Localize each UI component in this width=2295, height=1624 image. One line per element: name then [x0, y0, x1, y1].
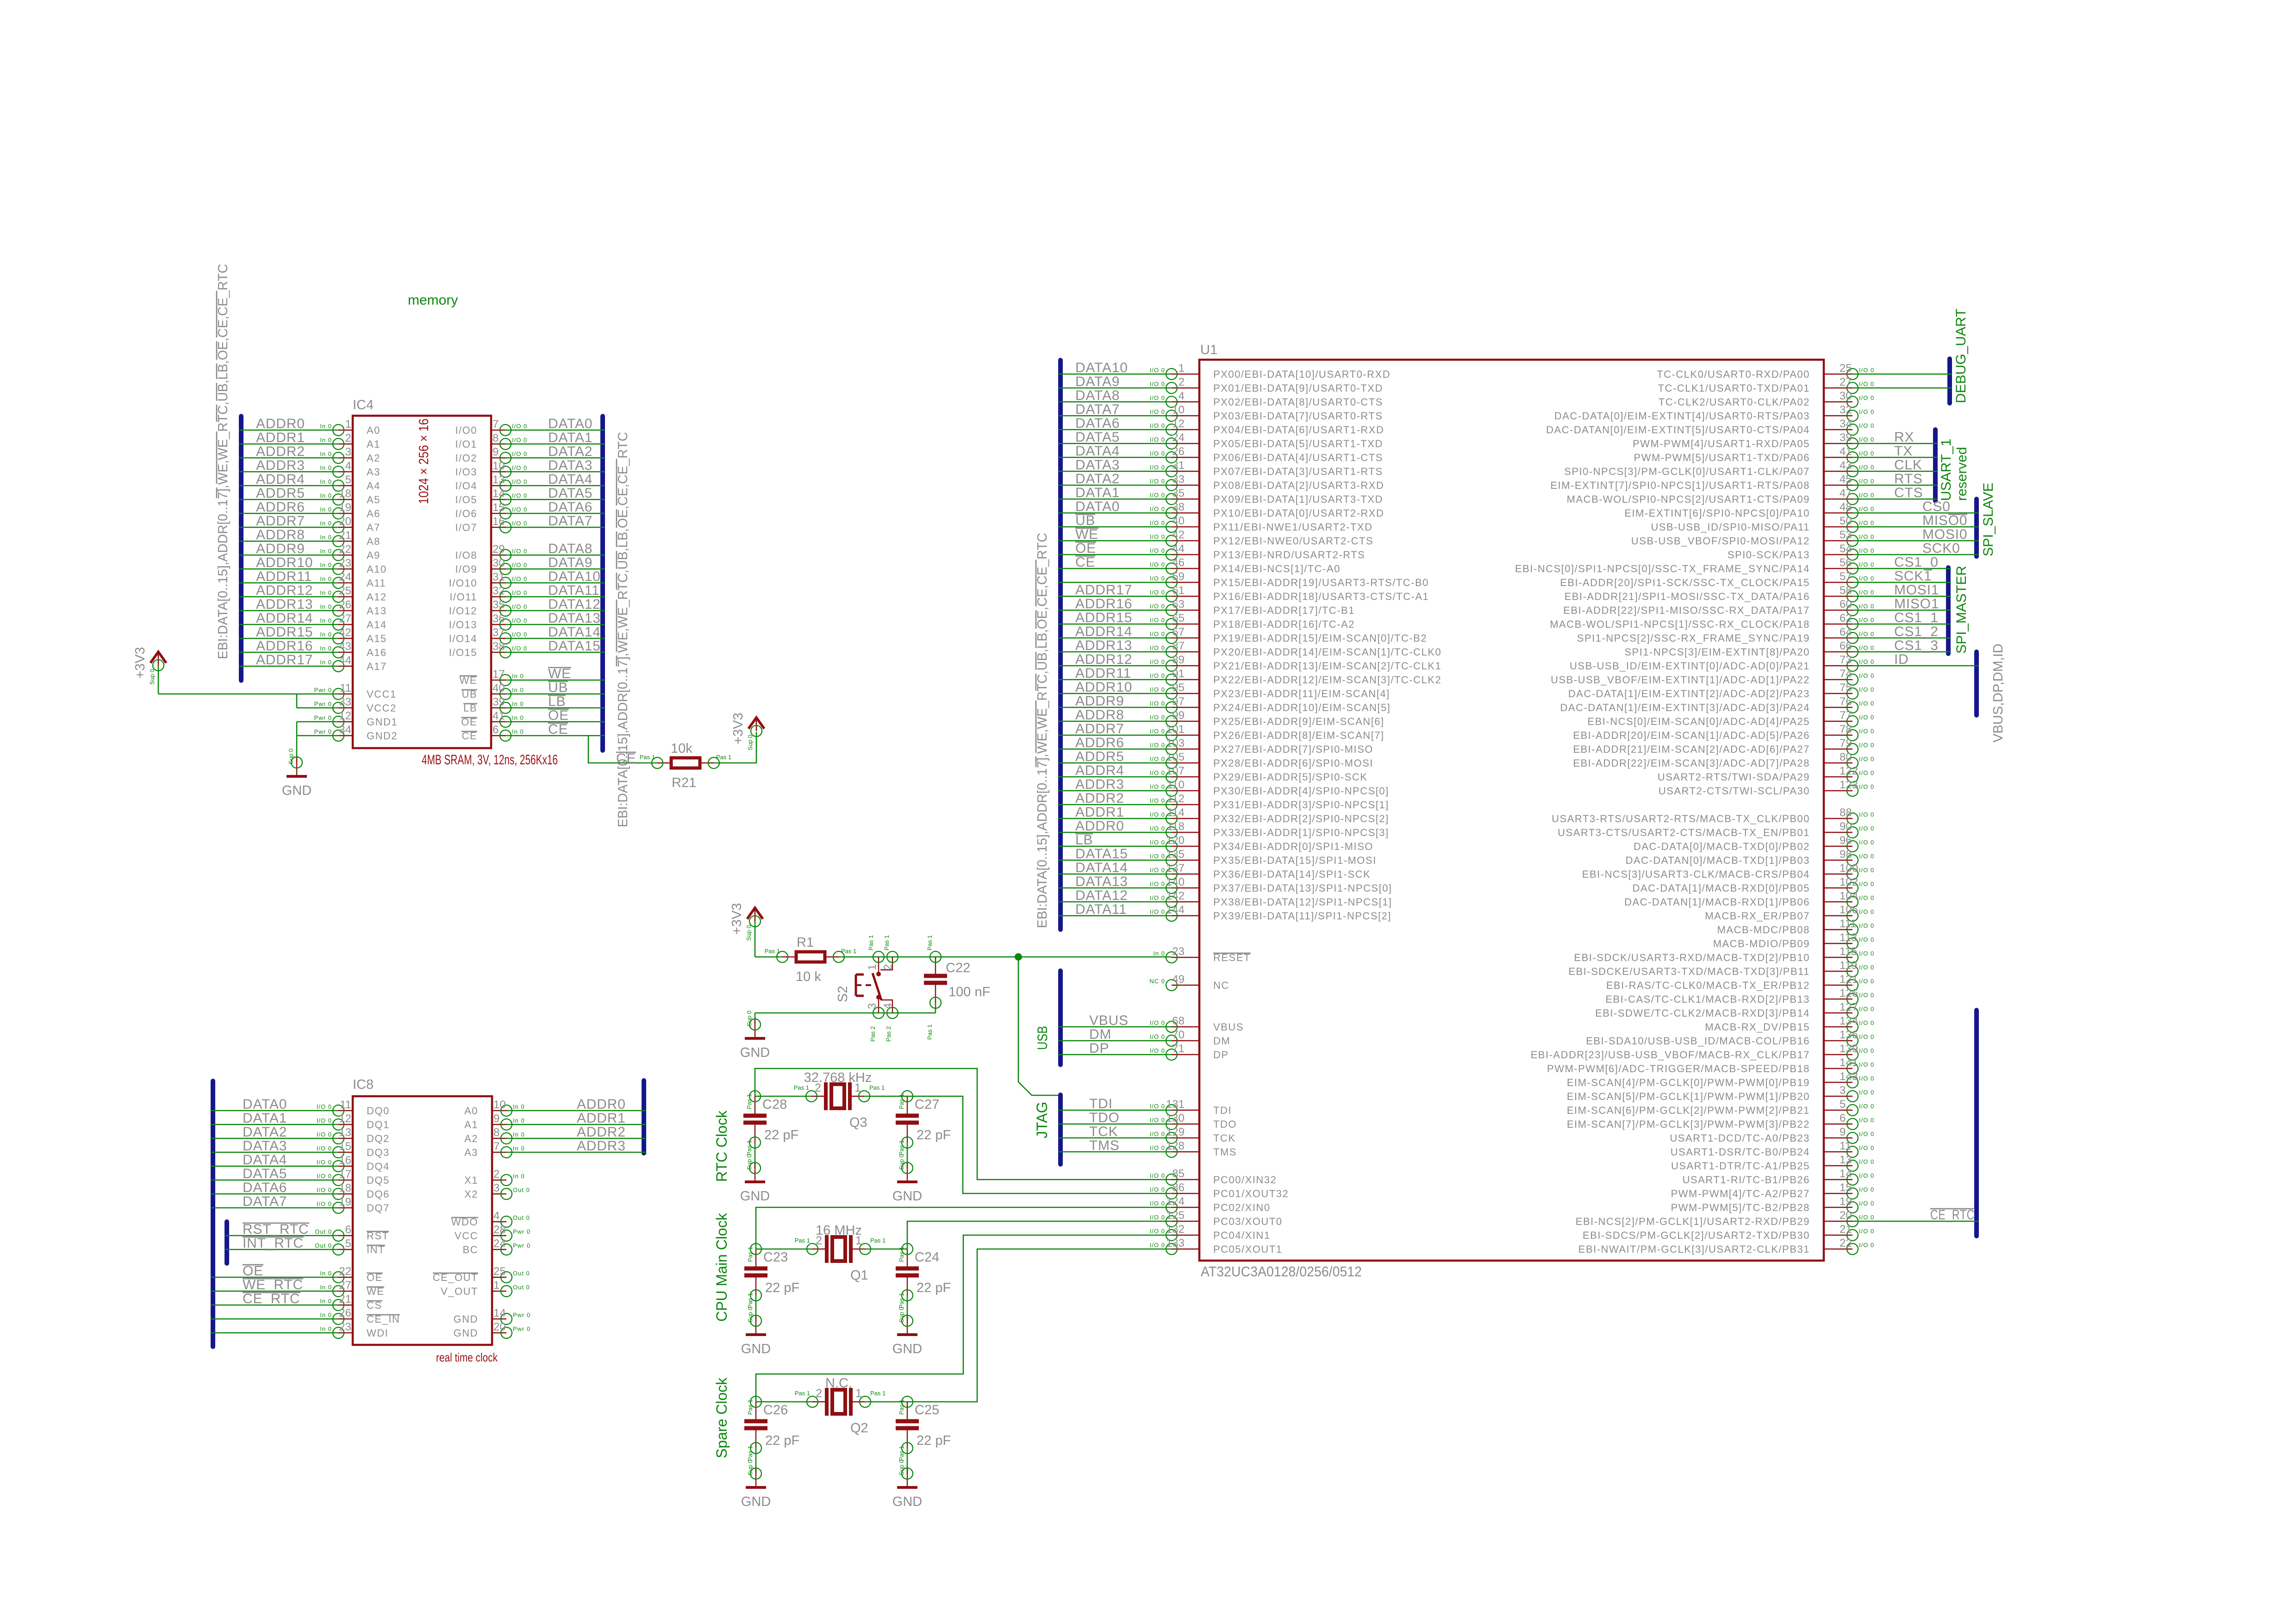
svg-text:DATA10: DATA10 — [548, 569, 601, 584]
wire to IC8 WDI — [211, 1332, 338, 1334]
svg-text:EBI-NCS[3]/USART3-CLK/MACB-CRS: EBI-NCS[3]/USART3-CLK/MACB-CRS/PB04 — [1582, 868, 1810, 880]
svg-text:4: 4 — [493, 1210, 499, 1222]
svg-text:PX04/EBI-DATA[6]/USART1-RXD: PX04/EBI-DATA[6]/USART1-RXD — [1213, 424, 1384, 436]
svg-text:Sup 0: Sup 0 — [746, 1154, 753, 1170]
svg-text:91: 91 — [1172, 668, 1185, 680]
svg-text:26: 26 — [339, 599, 351, 611]
IC8 pin 14 (GND) — [454, 1307, 531, 1325]
svg-text:10 k: 10 k — [796, 969, 821, 984]
svg-text:PX26/EBI-ADDR[8]/EIM-SCAN[7]: PX26/EBI-ADDR[8]/EIM-SCAN[7] — [1213, 730, 1384, 741]
svg-text:17: 17 — [493, 668, 505, 681]
svg-text:DATA2: DATA2 — [243, 1124, 287, 1140]
wire U1 pin 144 to EBI bus — [1059, 915, 1172, 917]
svg-text:Pas 1: Pas 1 — [746, 1094, 753, 1109]
svg-text:PX22/EBI-ADDR[12]/EIM-SCAN[3]/: PX22/EBI-ADDR[12]/EIM-SCAN[3]/TC-CLK2 — [1213, 674, 1441, 686]
U1 pin 43 — [1564, 459, 1874, 477]
U1 pin 33 — [1150, 473, 1384, 491]
svg-text:15: 15 — [339, 1140, 351, 1153]
svg-text:ADDR2: ADDR2 — [256, 444, 305, 459]
svg-text:In 0: In 0 — [320, 603, 332, 610]
svg-text:I/O 0: I/O 0 — [1150, 797, 1165, 804]
svg-text:Pas 1: Pas 1 — [883, 935, 890, 950]
svg-text:I/O 0: I/O 0 — [1859, 922, 1874, 929]
svg-text:PX31/EBI-ADDR[3]/SPI0-NPCS[1]: PX31/EBI-ADDR[3]/SPI0-NPCS[1] — [1213, 799, 1389, 811]
svg-text:A6: A6 — [367, 508, 380, 519]
svg-text:34: 34 — [1840, 418, 1852, 430]
wire U1 pin 4 to EBI bus — [1059, 401, 1172, 403]
U1 pin 120 — [1150, 834, 1373, 852]
wire Q2 right / XOUT1 — [865, 1249, 1172, 1402]
svg-text:32.768 kHz: 32.768 kHz — [804, 1070, 872, 1085]
svg-text:I/O 0: I/O 0 — [1150, 381, 1165, 387]
svg-text:USART3-CTS/USART2-CTS/MACB-TX_: USART3-CTS/USART2-CTS/MACB-TX_EN/PB01 — [1558, 827, 1810, 838]
svg-text:BC: BC — [462, 1244, 478, 1255]
svg-text:PX11/EBI-NWE1/USART2-TXD: PX11/EBI-NWE1/USART2-TXD — [1213, 521, 1372, 533]
svg-text:16: 16 — [339, 1154, 351, 1167]
svg-text:87: 87 — [1172, 640, 1185, 652]
svg-text:I/O 0: I/O 0 — [317, 1200, 332, 1207]
wire GND1 — [297, 721, 338, 723]
wire U1 pin 53 net — [1852, 540, 1978, 542]
svg-text:In 0: In 0 — [512, 714, 524, 721]
svg-text:I/O 0: I/O 0 — [1859, 1075, 1874, 1082]
svg-text:AT32UC3A0128/0256/0512: AT32UC3A0128/0256/0512 — [1201, 1263, 1362, 1280]
svg-text:A15: A15 — [367, 633, 387, 644]
svg-text:TC-CLK1/USART0-TXD/PA01: TC-CLK1/USART0-TXD/PA01 — [1658, 382, 1810, 394]
svg-text:I/O 0: I/O 0 — [1150, 867, 1165, 874]
svg-text:I/O 0: I/O 0 — [317, 1131, 332, 1138]
svg-text:37: 37 — [493, 626, 505, 639]
svg-text:I/O7: I/O7 — [455, 522, 477, 533]
svg-text:I/O 0: I/O 0 — [1859, 617, 1874, 624]
svg-text:Pas 1: Pas 1 — [898, 1293, 905, 1308]
svg-text:EBI-SDCKE/USART3-TXD/MACB-TXD[: EBI-SDCKE/USART3-TXD/MACB-TXD[3]/PB11 — [1568, 966, 1810, 977]
svg-text:PX19/EBI-ADDR[15]/EIM-SCAN[0]/: PX19/EBI-ADDR[15]/EIM-SCAN[0]/TC-B2 — [1213, 632, 1427, 644]
wire net ADDR4 to IC4 — [239, 485, 338, 487]
U1 pin 76 — [1560, 695, 1875, 713]
svg-text:ADDR2: ADDR2 — [577, 1124, 626, 1140]
svg-text:Pas 1: Pas 1 — [716, 754, 731, 761]
U1 pin 40 — [1150, 515, 1373, 533]
IC4 pin 22 (A9) — [320, 543, 380, 561]
svg-text:TDO: TDO — [1089, 1110, 1120, 1125]
svg-text:EIM-EXTINT[6]/SPI0-NPCS[0]/PA1: EIM-EXTINT[6]/SPI0-NPCS[0]/PA10 — [1624, 507, 1810, 519]
svg-text:I/O 0: I/O 0 — [1859, 575, 1874, 582]
IC4 pin 30 (I/O9) — [455, 557, 527, 575]
wire GND2 + to ground — [296, 722, 298, 762]
svg-text:60: 60 — [1840, 598, 1852, 611]
svg-text:I/O 0: I/O 0 — [1150, 881, 1165, 887]
svg-text:C24: C24 — [915, 1250, 939, 1265]
svg-text:Spare Clock: Spare Clock — [713, 1377, 730, 1458]
U1 pin 104 — [1624, 890, 1874, 908]
svg-text:CLK: CLK — [1894, 457, 1922, 473]
svg-text:I/O0: I/O0 — [455, 425, 477, 436]
svg-text:I/O 0: I/O 0 — [1859, 1242, 1874, 1249]
svg-text:1: 1 — [493, 1279, 499, 1292]
wire net DATA10 from IC4 — [505, 582, 605, 584]
svg-text:2: 2 — [493, 1168, 499, 1181]
svg-text:I/O 0: I/O 0 — [1859, 936, 1874, 943]
svg-text:48: 48 — [1840, 501, 1852, 513]
U1 pin 63 — [1150, 598, 1355, 616]
svg-text:ADDR3: ADDR3 — [577, 1138, 626, 1154]
svg-text:I/O 0: I/O 0 — [1859, 589, 1874, 596]
svg-text:ADDR3: ADDR3 — [256, 458, 305, 473]
U1 pin 124 (PC02/XIN0) — [1150, 1195, 1271, 1213]
svg-text:1: 1 — [855, 1387, 862, 1400]
capacitor C28 22 pF — [743, 1091, 798, 1168]
svg-text:105: 105 — [1166, 751, 1185, 763]
wire U1 pin 26 to EBI bus — [1059, 457, 1172, 458]
svg-text:2: 2 — [816, 1387, 822, 1400]
svg-text:135: 135 — [1166, 848, 1185, 861]
svg-text:23: 23 — [339, 1321, 351, 1333]
svg-text:MACB-WOL/SPI1-NPCS[1]/SSC-RX_C: MACB-WOL/SPI1-NPCS[1]/SSC-RX_CLOCK/PA18 — [1550, 618, 1810, 630]
IC8 pin 23 (WDI) — [320, 1321, 388, 1339]
wire U1 pin 103 to EBI bus — [1059, 749, 1172, 750]
svg-text:5: 5 — [345, 474, 351, 486]
U1 pin 56 — [1515, 556, 1874, 575]
svg-text:ADDR5: ADDR5 — [256, 486, 305, 501]
wire U1 pin 87 to EBI bus — [1059, 651, 1172, 653]
U1 pin 137 — [1150, 862, 1371, 880]
svg-text:13: 13 — [339, 1126, 351, 1139]
U1 pin 102 — [1633, 876, 1875, 894]
svg-text:UB: UB — [548, 680, 568, 695]
bus EBI right of IC4 — [600, 416, 605, 750]
svg-text:114: 114 — [1167, 806, 1185, 819]
svg-text:12: 12 — [339, 1112, 351, 1125]
svg-text:I/O 0: I/O 0 — [512, 506, 527, 513]
svg-text:Pas 1: Pas 1 — [746, 1140, 753, 1156]
svg-text:I/O 0: I/O 0 — [1859, 950, 1874, 957]
svg-text:EBI-ADDR[22]/EIM-SCAN[3]/ADC-A: EBI-ADDR[22]/EIM-SCAN[3]/ADC-AD[7]/PA28 — [1573, 757, 1810, 769]
U1 pin 62 — [1550, 612, 1874, 630]
U1 pin 61 — [1150, 584, 1429, 602]
svg-text:In 0: In 0 — [513, 1173, 525, 1180]
svg-text:77: 77 — [1840, 709, 1852, 722]
svg-text:A11: A11 — [367, 577, 386, 589]
wire net DATA7 to IC8 — [211, 1207, 338, 1209]
svg-text:I/O 0: I/O 0 — [1859, 714, 1874, 721]
U1 pin 23 (RESET) — [1153, 945, 1251, 963]
svg-text:I/O 0: I/O 0 — [1150, 686, 1165, 693]
svg-text:42: 42 — [1172, 529, 1185, 541]
U1 pin 112 — [1150, 793, 1389, 811]
svg-text:43: 43 — [1840, 459, 1852, 472]
svg-text:101: 101 — [1166, 723, 1185, 736]
crystal Q2 N.C. — [795, 1376, 886, 1436]
svg-text:EBI-NCS[0]/SPI1-NPCS[0]/SSC-TX: EBI-NCS[0]/SPI1-NPCS[0]/SSC-TX_FRAME_SYN… — [1515, 563, 1810, 575]
svg-text:DATA13: DATA13 — [548, 611, 601, 626]
wire net ADDR15 to IC4 — [239, 638, 338, 639]
svg-text:I/O 0: I/O 0 — [1150, 1214, 1165, 1221]
svg-text:PX25/EBI-ADDR[9]/EIM-SCAN[6]: PX25/EBI-ADDR[9]/EIM-SCAN[6] — [1213, 716, 1384, 727]
svg-text:A14: A14 — [367, 619, 387, 631]
svg-text:23: 23 — [339, 557, 351, 569]
svg-text:TX: TX — [1894, 443, 1913, 459]
svg-text:35: 35 — [1172, 487, 1185, 500]
U1 pin 123 — [1659, 779, 1874, 797]
svg-text:22: 22 — [339, 543, 351, 556]
wire VCC2 branch — [296, 694, 298, 708]
svg-text:I/O15: I/O15 — [449, 647, 477, 658]
IC8 pin 24 (BC) — [462, 1237, 530, 1255]
svg-text:A9: A9 — [367, 550, 380, 561]
wire net DATA12 from IC4 — [505, 610, 605, 612]
svg-text:I/O 0: I/O 0 — [1859, 492, 1874, 499]
svg-text:Pwr 0: Pwr 0 — [314, 728, 332, 735]
wire net DATA6 from IC4 — [505, 513, 605, 514]
wire net ADDR1 from IC8 — [506, 1124, 646, 1125]
svg-text:PX10/EBI-DATA[0]/USART2-RXD: PX10/EBI-DATA[0]/USART2-RXD — [1213, 507, 1384, 519]
svg-text:I/O 0: I/O 0 — [1150, 1200, 1165, 1207]
wire RESET to JTAG bus — [1018, 957, 1059, 1095]
svg-text:39: 39 — [1840, 431, 1852, 444]
capacitor C26 22 pF — [744, 1396, 799, 1474]
svg-text:DATA7: DATA7 — [1075, 402, 1120, 417]
svg-text:134: 134 — [1840, 1015, 1858, 1027]
svg-text:VCC: VCC — [455, 1230, 478, 1242]
svg-text:DAC-DATAN[0]/MACB-TXD[1]/PB03: DAC-DATAN[0]/MACB-TXD[1]/PB03 — [1626, 855, 1810, 866]
svg-text:DATA15: DATA15 — [1075, 846, 1128, 862]
svg-text:40: 40 — [493, 682, 505, 694]
IC8 pin 16 (DQ4) — [317, 1154, 390, 1172]
svg-text:DQ5: DQ5 — [367, 1174, 390, 1186]
U1 pin 58 — [1565, 584, 1875, 602]
svg-text:115: 115 — [1840, 945, 1857, 958]
IC4 pin 24 (A11) — [320, 571, 386, 589]
svg-text:In 0: In 0 — [512, 673, 524, 680]
svg-text:25: 25 — [1840, 362, 1852, 375]
capacitor C25 22 pF — [896, 1396, 951, 1474]
U1 pin 143 — [1567, 1070, 1874, 1088]
svg-text:Pwr 0: Pwr 0 — [513, 1312, 530, 1318]
svg-text:57: 57 — [1840, 570, 1852, 583]
svg-text:I/O 0: I/O 0 — [1150, 1047, 1165, 1054]
svg-text:CPU Main Clock: CPU Main Clock — [713, 1212, 730, 1322]
svg-text:Sup 0: Sup 0 — [747, 735, 754, 750]
svg-text:PX18/EBI-ADDR[16]/TC-A2: PX18/EBI-ADDR[16]/TC-A2 — [1213, 618, 1355, 630]
svg-text:PX05/EBI-DATA[5]/USART1-TXD: PX05/EBI-DATA[5]/USART1-TXD — [1213, 438, 1383, 450]
U1 pin 19 — [1671, 1195, 1875, 1213]
svg-text:I/O 0: I/O 0 — [1150, 533, 1165, 540]
svg-text:32: 32 — [1840, 404, 1852, 416]
svg-text:Pas 1: Pas 1 — [747, 1247, 754, 1262]
wire TCK to JTAG bus — [1059, 1137, 1172, 1139]
svg-text:45: 45 — [1840, 473, 1852, 486]
wire net ADDR5 to IC4 — [239, 499, 338, 500]
svg-text:In 0: In 0 — [320, 506, 332, 513]
wire U1 pin 120 to EBI bus — [1059, 846, 1172, 847]
U1 pin 6 — [1567, 1112, 1874, 1130]
junction RESET node — [1015, 953, 1022, 961]
U1 pin 39 — [1633, 431, 1874, 450]
svg-text:I/O 0: I/O 0 — [1150, 1228, 1165, 1235]
svg-text:C26: C26 — [763, 1403, 788, 1418]
svg-text:56: 56 — [1840, 556, 1852, 569]
wire U1 pin 66 net — [1852, 651, 1950, 653]
capacitor C24 22 pF — [896, 1243, 951, 1321]
svg-text:22: 22 — [339, 1265, 351, 1278]
svg-text:I/O 0: I/O 0 — [1859, 1033, 1874, 1040]
svg-text:I/O 0: I/O 0 — [1150, 825, 1165, 832]
svg-text:12: 12 — [339, 710, 351, 722]
svg-text:I/O 0: I/O 0 — [1859, 1144, 1874, 1151]
svg-text:PC04/XIN1: PC04/XIN1 — [1213, 1230, 1271, 1241]
svg-text:INT_RTC: INT_RTC — [243, 1236, 304, 1251]
svg-text:IC8: IC8 — [353, 1077, 374, 1092]
svg-text:14: 14 — [493, 1307, 506, 1319]
svg-text:DATA0: DATA0 — [243, 1097, 287, 1112]
svg-text:137: 137 — [1166, 862, 1185, 874]
svg-text:I/O 0: I/O 0 — [1859, 422, 1874, 429]
svg-text:I/O10: I/O10 — [449, 577, 477, 589]
switch S2 — [836, 935, 898, 1042]
wire U1 pin 27 net — [1852, 387, 1952, 389]
svg-text:ADDR3: ADDR3 — [1075, 777, 1124, 792]
svg-text:112: 112 — [1167, 793, 1185, 805]
svg-text:75: 75 — [1840, 681, 1852, 694]
svg-text:Out 0: Out 0 — [513, 1270, 530, 1277]
svg-text:ADDR15: ADDR15 — [1075, 610, 1132, 625]
svg-text:129: 129 — [1166, 1126, 1185, 1138]
wire XIN32 rail — [755, 1068, 1172, 1180]
IC8 pin 28 (VCC) — [455, 1224, 530, 1242]
svg-text:I/O 0: I/O 0 — [1150, 394, 1165, 401]
svg-text:ADDR14: ADDR14 — [1075, 624, 1132, 639]
svg-text:TDI: TDI — [1089, 1096, 1113, 1112]
svg-text:Q3: Q3 — [849, 1115, 867, 1130]
svg-text:PX03/EBI-DATA[7]/USART0-RTS: PX03/EBI-DATA[7]/USART0-RTS — [1213, 410, 1383, 422]
svg-text:46: 46 — [1172, 556, 1185, 569]
wire net DATA4 from IC4 — [505, 485, 605, 487]
IC8 pin 11 (DQ0) — [317, 1099, 390, 1117]
svg-text:A4: A4 — [367, 480, 380, 492]
svg-text:In 0: In 0 — [512, 728, 524, 735]
svg-text:I/O 0: I/O 0 — [1150, 464, 1165, 471]
svg-text:64: 64 — [1840, 626, 1852, 638]
svg-text:132: 132 — [1166, 1223, 1185, 1236]
svg-text:UB: UB — [1075, 513, 1095, 528]
svg-text:In 0: In 0 — [320, 1298, 332, 1305]
wire net DATA6 to IC8 — [211, 1193, 338, 1195]
svg-text:USB-USB_ID/EIM-EXTINT[0]/ADC-A: USB-USB_ID/EIM-EXTINT[0]/ADC-AD[0]/PA21 — [1570, 660, 1810, 672]
svg-text:EBI-ADDR[21]/EIM-SCAN[2]/ADC-A: EBI-ADDR[21]/EIM-SCAN[2]/ADC-AD[6]/PA27 — [1573, 743, 1810, 755]
svg-text:PX34/EBI-ADDR[0]/SPI1-MISO: PX34/EBI-ADDR[0]/SPI1-MISO — [1213, 841, 1373, 852]
svg-text:I/O9: I/O9 — [455, 563, 477, 575]
svg-text:I/O 0: I/O 0 — [1859, 1117, 1874, 1124]
wire U1 pin 56 net — [1852, 568, 1950, 569]
svg-text:DATA1: DATA1 — [243, 1111, 287, 1126]
svg-text:Sup 0: Sup 0 — [898, 1307, 905, 1323]
svg-text:24: 24 — [339, 571, 351, 583]
wire to IC8 OE — [211, 1277, 338, 1278]
svg-text:In 0: In 0 — [320, 617, 332, 624]
svg-text:SCK0: SCK0 — [1922, 541, 1960, 556]
svg-text:DAC-DATAN[0]/EIM-EXTINT[5]/USA: DAC-DATAN[0]/EIM-EXTINT[5]/USART0-CTS/PA… — [1546, 424, 1810, 436]
svg-text:N.C.: N.C. — [825, 1376, 852, 1391]
U1 pin 139 — [1531, 1043, 1875, 1061]
wire to IC8 CE_IN — [211, 1318, 338, 1320]
IC4 pin 1 (A0) — [320, 418, 380, 436]
svg-text:22: 22 — [1840, 1237, 1852, 1249]
svg-text:DM: DM — [1213, 1035, 1230, 1047]
svg-text:63: 63 — [1172, 598, 1185, 611]
IC4 pin 17 (WE) — [460, 668, 524, 686]
IC4 pin 44 (A17) — [320, 654, 387, 672]
bus left of IC8 — [211, 1081, 215, 1347]
svg-text:ADDR13: ADDR13 — [256, 597, 313, 612]
wire U1 pin 99 to EBI bus — [1059, 721, 1172, 722]
U1 pin 95 — [1150, 681, 1390, 700]
U1 pin 125 (PC03/XOUT0) — [1150, 1209, 1283, 1227]
svg-text:PX20/EBI-ADDR[14]/EIM-SCAN[1]/: PX20/EBI-ADDR[14]/EIM-SCAN[1]/TC-CLK0 — [1213, 646, 1441, 658]
svg-text:ADDR7: ADDR7 — [1075, 721, 1124, 737]
svg-text:CS1_0: CS1_0 — [1894, 555, 1939, 570]
IC4 pin 11 (VCC1) — [314, 682, 397, 700]
wire net DATA2 to IC8 — [211, 1138, 338, 1139]
svg-text:4MB SRAM, 3V, 12ns, 256Kx16: 4MB SRAM, 3V, 12ns, 256Kx16 — [422, 752, 558, 768]
svg-text:I/O 0: I/O 0 — [1150, 1144, 1165, 1151]
svg-text:Pas 2: Pas 2 — [885, 1026, 892, 1042]
wire R21 to +3V3 — [714, 732, 756, 763]
svg-text:22 pF: 22 pF — [765, 1433, 799, 1448]
svg-text:43: 43 — [339, 640, 351, 653]
svg-text:CTS: CTS — [1894, 485, 1923, 500]
svg-text:DATA12: DATA12 — [548, 597, 601, 612]
svg-text:I/O 0: I/O 0 — [317, 1173, 332, 1180]
svg-text:USB-USB_VBOF/EIM-EXTINT[1]/ADC: USB-USB_VBOF/EIM-EXTINT[1]/ADC-AD[1]/PA2… — [1551, 674, 1810, 686]
svg-text:In 0: In 0 — [320, 464, 332, 471]
wire net ADDR11 to IC4 — [239, 582, 338, 584]
svg-text:WDI: WDI — [367, 1327, 388, 1339]
wire net DATA2 from IC4 — [505, 457, 605, 459]
svg-text:MISO0: MISO0 — [1922, 513, 1967, 528]
svg-text:ADDR9: ADDR9 — [256, 541, 305, 556]
svg-text:Q2: Q2 — [850, 1421, 868, 1436]
svg-text:27: 27 — [1840, 376, 1852, 388]
svg-text:74: 74 — [1840, 668, 1852, 680]
IC4 pin 21 (A8) — [320, 529, 380, 547]
IC8 pin 8 (A2) — [464, 1126, 525, 1144]
svg-text:DAC-DATA[1]/EIM-EXTINT[2]/ADC-: DAC-DATA[1]/EIM-EXTINT[2]/ADC-AD[2]/PA23 — [1568, 688, 1810, 700]
U1 pin 13 — [1671, 1154, 1874, 1172]
svg-text:7: 7 — [493, 418, 499, 431]
U1 pin 90 — [1558, 820, 1874, 838]
svg-text:GND1: GND1 — [367, 716, 398, 728]
svg-text:RX: RX — [1894, 430, 1914, 445]
U1 pin 80 — [1573, 751, 1874, 769]
svg-text:38: 38 — [1172, 501, 1185, 513]
svg-text:EIM-SCAN[5]/PM-GCLK[1]/PWM-PWM: EIM-SCAN[5]/PM-GCLK[1]/PWM-PWM[1]/PB20 — [1567, 1091, 1810, 1102]
IC8 pin 20 (GND) — [454, 1321, 531, 1339]
svg-text:DATA7: DATA7 — [548, 513, 592, 529]
IC4 pin 35 (I/O12) — [449, 599, 528, 617]
svg-text:SCK1: SCK1 — [1894, 568, 1932, 584]
svg-text:EBI-SDWE/TC-CLK2/MACB-RXD[3]/P: EBI-SDWE/TC-CLK2/MACB-RXD[3]/PB14 — [1595, 1007, 1810, 1019]
svg-text:I/O 0: I/O 0 — [1150, 1103, 1165, 1110]
svg-text:21: 21 — [1840, 1223, 1852, 1236]
IC IC8 box — [353, 1096, 492, 1345]
crystal Q1 16 MHz — [795, 1223, 886, 1283]
svg-text:NC 0: NC 0 — [1149, 978, 1165, 985]
svg-text:I/O 0: I/O 0 — [1859, 686, 1874, 693]
svg-text:Pwr 0: Pwr 0 — [314, 700, 332, 707]
svg-text:DEBUG_UART: DEBUG_UART — [1953, 309, 1969, 404]
svg-text:47: 47 — [1840, 487, 1852, 500]
